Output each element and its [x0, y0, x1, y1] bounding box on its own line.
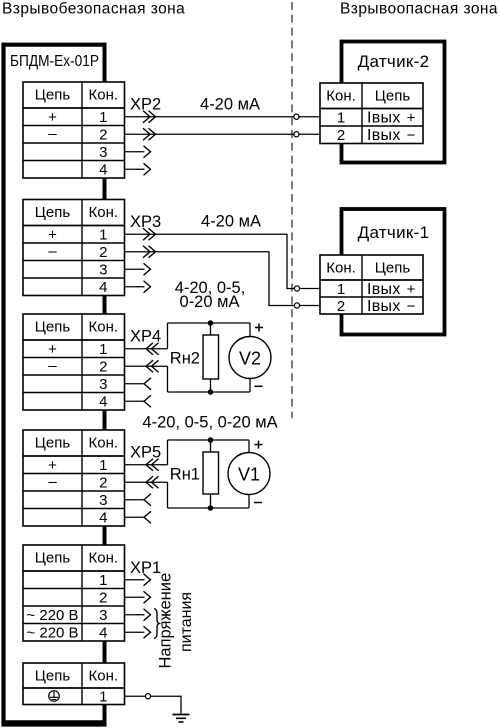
- terminal circle on earth wire: [145, 694, 150, 699]
- svg-text:Цепь: Цепь: [35, 204, 71, 221]
- pin arrows XP4.2 (double chevron): [146, 360, 159, 372]
- wire top rail (node +): [168, 322, 251, 324]
- wire stub XP1.3: [125, 614, 145, 616]
- svg-text:–: –: [48, 357, 57, 374]
- wire V2 bottom lead: [249, 378, 251, 392]
- svg-text:Цепь: Цепь: [375, 260, 411, 277]
- pin arrow XP1.4: [144, 626, 151, 638]
- svg-text:3: 3: [99, 607, 107, 624]
- wire bottom rail (node -): [168, 391, 251, 393]
- pin arrow XP3.3: [144, 263, 151, 275]
- svg-text:4-20 мА: 4-20 мА: [201, 213, 261, 231]
- wire loop left vertical (XP4.2 down): [167, 366, 169, 392]
- junction dot top (XP4 loop): [208, 320, 214, 326]
- svg-text:−: −: [407, 298, 416, 315]
- svg-text:Датчик-2: Датчик-2: [358, 52, 430, 71]
- svg-text:1: 1: [99, 109, 107, 126]
- svg-text:Датчик-1: Датчик-1: [358, 223, 430, 242]
- svg-text:4: 4: [99, 162, 107, 179]
- pin arrows XP4.1 (double chevron): [146, 343, 159, 355]
- svg-text:+: +: [407, 110, 416, 127]
- svg-text:Цепь: Цепь: [35, 668, 71, 685]
- svg-text:Цепь: Цепь: [35, 87, 71, 104]
- svg-text:0-20 мА: 0-20 мА: [180, 293, 240, 311]
- wire stub XP5.3: [125, 499, 145, 501]
- svg-text:−: −: [407, 127, 416, 144]
- svg-text:Взрывоопасная зона: Взрывоопасная зона: [340, 1, 498, 18]
- svg-text:БПДМ-Ex-01Р: БПДМ-Ex-01Р: [10, 53, 99, 70]
- svg-text:+: +: [48, 457, 57, 474]
- pin arrows XP3.2 (double chevron): [143, 246, 156, 258]
- svg-text:Цепь: Цепь: [35, 435, 71, 452]
- svg-text:Цепь: Цепь: [35, 550, 71, 567]
- connector XP3 terminal table: [23, 200, 125, 297]
- svg-text:Кон.: Кон.: [326, 260, 356, 277]
- svg-text:4: 4: [99, 625, 107, 642]
- pin arrows XP2.2 (double chevron): [143, 128, 156, 140]
- junction dot bottom (XP5 loop): [208, 505, 214, 511]
- svg-text:+: +: [48, 227, 57, 244]
- svg-text:1: 1: [99, 689, 107, 706]
- connector XP4 terminal table: [23, 314, 125, 411]
- wire XP3.1 to Датчик-1 pin 1: [125, 234, 321, 288]
- pin arrow XP5.4: [144, 511, 151, 523]
- svg-text:1: 1: [337, 110, 345, 127]
- svg-text:~ 220 В: ~ 220 В: [26, 607, 78, 624]
- terminal circle on wire XP3.1: [294, 286, 299, 291]
- svg-text:4: 4: [99, 394, 107, 411]
- sensor Датчик-1 box: [342, 209, 445, 335]
- svg-text:2: 2: [337, 298, 345, 315]
- wire V1 top lead: [248, 440, 250, 453]
- svg-text:2: 2: [99, 244, 107, 261]
- svg-text:4-20 мА: 4-20 мА: [200, 96, 260, 114]
- zone boundary dashed line: [291, 2, 293, 418]
- pin arrow XP3.4: [144, 281, 151, 293]
- wire XP5.1: [125, 464, 168, 466]
- svg-text:2: 2: [99, 590, 107, 607]
- sensor Датчик-2 box: [342, 42, 445, 163]
- ground symbol: [173, 715, 190, 723]
- svg-text:1: 1: [99, 572, 107, 589]
- svg-text:~ 220 В: ~ 220 В: [26, 625, 78, 642]
- svg-text:1: 1: [99, 457, 107, 474]
- pin arrows XP5.1 (double chevron): [146, 459, 159, 471]
- svg-text:–: –: [48, 125, 57, 142]
- svg-text:V2: V2: [239, 349, 261, 369]
- polarity - (V1): [254, 502, 262, 504]
- svg-text:2: 2: [337, 127, 345, 144]
- wire XP5.2: [125, 481, 168, 483]
- pin arrows XP2.1 (double chevron): [143, 111, 156, 123]
- terminal circle on wire XP2.2: [294, 132, 299, 137]
- svg-text:Кон.: Кон.: [88, 668, 118, 685]
- svg-text:4-20, 0-5, 0-20 мА: 4-20, 0-5, 0-20 мА: [142, 414, 277, 432]
- wire loop left vertical (XP5.2 down): [167, 482, 169, 508]
- svg-text:2: 2: [99, 127, 107, 144]
- pin arrow XP1.3: [144, 609, 151, 621]
- terminal circle on wire XP3.2: [294, 303, 299, 308]
- wire V2 top lead: [249, 323, 251, 337]
- wire stub XP5.4: [125, 516, 145, 518]
- svg-text:4: 4: [99, 279, 107, 296]
- Датчик-1 terminal table: [320, 255, 423, 315]
- svg-text:Цепь: Цепь: [375, 88, 411, 105]
- svg-text:Кон.: Кон.: [88, 204, 118, 221]
- svg-text:–: –: [48, 243, 57, 260]
- wire top rail (node +): [168, 439, 250, 441]
- svg-text:питания: питания: [178, 592, 195, 652]
- wire bottom rail (node -): [168, 507, 250, 509]
- svg-text:Взрывобезопасная зона: Взрывобезопасная зона: [2, 1, 185, 18]
- svg-text:Напряжение: Напряжение: [157, 573, 175, 669]
- pin arrow XP2.4: [144, 163, 151, 175]
- pin arrows XP3.1 (double chevron): [143, 228, 156, 240]
- connector XP2 terminal table: [23, 82, 125, 179]
- svg-text:Кон.: Кон.: [88, 435, 118, 452]
- svg-text:Цепь: Цепь: [35, 319, 71, 336]
- wire stub XP1.1: [125, 579, 145, 581]
- svg-text:2: 2: [99, 475, 107, 492]
- connector XP5 terminal table: [23, 430, 125, 527]
- value label 4-20, 0-5, / 0-20 мА: [175, 279, 246, 311]
- svg-text:V1: V1: [238, 465, 260, 485]
- wire stub XP1.4: [125, 631, 145, 633]
- wire Rн1 bottom lead: [210, 494, 212, 508]
- wire stub XP2.4: [125, 168, 145, 170]
- wire stub XP3.3: [125, 268, 145, 270]
- wire Rн2 top lead: [210, 323, 212, 335]
- polarity + (V2): [255, 324, 263, 332]
- svg-text:ХР2: ХР2: [130, 96, 161, 114]
- svg-text:Кон.: Кон.: [88, 319, 118, 336]
- svg-text:3: 3: [99, 262, 107, 279]
- wire loop left vertical (XP5.1 up): [167, 440, 169, 465]
- svg-text:Iвых: Iвых: [367, 281, 401, 298]
- pin arrow XP5.3: [144, 494, 151, 506]
- svg-text:Iвых: Iвых: [367, 127, 401, 144]
- wire stub XP1.2: [125, 596, 145, 598]
- pin arrow XP1.1: [144, 574, 151, 586]
- voltmeter V2: [229, 337, 271, 379]
- polarity - (V2): [255, 385, 263, 387]
- svg-text:Iвых: Iвых: [367, 298, 401, 315]
- connector XP1 terminal table: [23, 545, 125, 642]
- svg-text:Rн1: Rн1: [170, 466, 200, 484]
- wire earth terminal to ground: [125, 696, 182, 714]
- svg-text:2: 2: [99, 359, 107, 376]
- resistor Rн2: [170, 335, 219, 379]
- svg-text:4: 4: [99, 510, 107, 527]
- resistor Rн1: [170, 452, 219, 494]
- wire XP4.1: [125, 348, 168, 350]
- svg-text:ХР3: ХР3: [130, 213, 161, 231]
- svg-text:+: +: [48, 109, 57, 126]
- wire XP3.2 to Датчик-1 pin 2: [125, 252, 321, 306]
- junction dot bottom (XP4 loop): [208, 389, 214, 395]
- pin arrow XP4.3: [144, 378, 151, 390]
- polarity + (V1): [255, 441, 263, 449]
- svg-text:Кон.: Кон.: [88, 550, 118, 567]
- svg-text:–: –: [48, 473, 57, 490]
- svg-text:Кон.: Кон.: [88, 87, 118, 104]
- svg-text:Кон.: Кон.: [326, 88, 356, 105]
- svg-text:3: 3: [99, 376, 107, 393]
- svg-text:1: 1: [99, 341, 107, 358]
- svg-text:ХР4: ХР4: [130, 328, 161, 346]
- svg-text:ХР5: ХР5: [130, 444, 161, 462]
- wire stub XP4.4: [125, 400, 145, 402]
- wire Rн2 bottom lead: [210, 379, 212, 392]
- pin arrow XP2.3: [144, 146, 151, 158]
- pin arrows XP5.2 (double chevron): [146, 476, 159, 488]
- wire stub XP2.3: [125, 151, 145, 153]
- svg-text:1: 1: [337, 281, 345, 298]
- svg-text:+: +: [407, 281, 416, 298]
- wire loop left vertical (XP4.1 up): [167, 323, 169, 349]
- label Напряжение питания (rotated): [157, 573, 196, 669]
- wire Rн1 top lead: [210, 440, 212, 452]
- svg-text:Iвых: Iвых: [367, 110, 401, 127]
- wire XP4.2: [125, 365, 168, 367]
- svg-text:Rн2: Rн2: [170, 350, 200, 368]
- voltmeter V1: [228, 453, 270, 495]
- wire stub XP4.3: [125, 383, 145, 385]
- pin arrow XP4.4: [144, 395, 151, 407]
- wire V1 bottom lead: [248, 494, 250, 508]
- wire stub XP3.4: [125, 286, 145, 288]
- wire XP2.1 to Датчик-2 pin 1: [125, 116, 321, 118]
- protective earth symbol in table: [49, 691, 60, 702]
- svg-text:+: +: [48, 341, 57, 358]
- Датчик-2 terminal table: [320, 83, 423, 144]
- device БПДМ-Ex-01Р enclosure: [2, 43, 107, 727]
- svg-text:1: 1: [99, 227, 107, 244]
- wire XP2.2 to Датчик-2 pin 2: [125, 133, 321, 135]
- brace grouping pins 3-4: [154, 609, 159, 639]
- svg-text:3: 3: [99, 492, 107, 509]
- svg-text:3: 3: [99, 144, 107, 161]
- pin arrow XP1.2: [144, 591, 151, 603]
- junction dot top (XP5 loop): [208, 437, 214, 443]
- terminal circle on wire XP2.1: [294, 114, 299, 119]
- earth terminal table: [23, 663, 125, 706]
